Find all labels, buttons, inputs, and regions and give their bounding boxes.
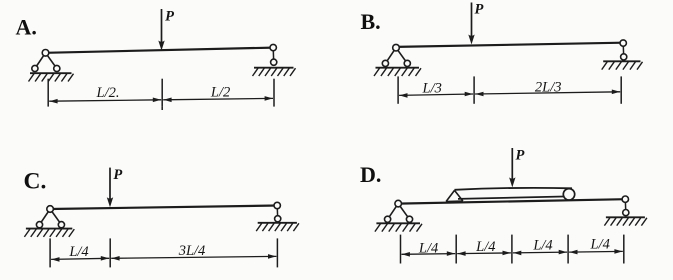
- svg-text:P: P: [475, 2, 484, 18]
- svg-text:P: P: [516, 148, 525, 164]
- svg-text:2L/3: 2L/3: [535, 79, 562, 95]
- svg-text:L/3: L/3: [422, 80, 442, 96]
- svg-text:L/4: L/4: [590, 236, 610, 252]
- svg-text:3L/4: 3L/4: [178, 243, 206, 259]
- svg-text:L/4: L/4: [68, 244, 88, 260]
- svg-text:L/4: L/4: [475, 239, 495, 255]
- svg-text:P: P: [113, 167, 122, 183]
- svg-text:L/4: L/4: [532, 238, 552, 254]
- svg-text:L/2.: L/2.: [96, 85, 120, 101]
- svg-text:L/4: L/4: [418, 240, 438, 256]
- svg-text:P: P: [165, 9, 174, 25]
- svg-text:D.: D.: [360, 162, 381, 187]
- svg-text:C.: C.: [24, 169, 47, 195]
- svg-text:B.: B.: [361, 9, 381, 34]
- svg-text:L/2: L/2: [210, 84, 230, 100]
- svg-text:A.: A.: [16, 15, 37, 40]
